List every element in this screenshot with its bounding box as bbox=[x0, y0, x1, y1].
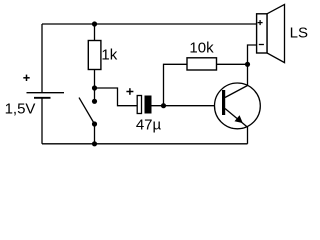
svg-text:LS: LS bbox=[290, 24, 308, 41]
svg-text:47µ: 47µ bbox=[136, 117, 162, 134]
svg-text:10k: 10k bbox=[189, 40, 214, 57]
svg-text:1,5V: 1,5V bbox=[5, 100, 36, 117]
svg-text:1k: 1k bbox=[101, 47, 117, 64]
